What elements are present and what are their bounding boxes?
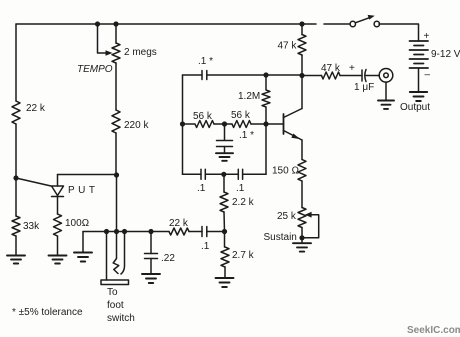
svg-text:Output: Output bbox=[400, 102, 430, 113]
label 56 k second bbox=[231, 110, 251, 121]
junction foot switch middle bbox=[114, 229, 119, 234]
svg-text:22 k: 22 k bbox=[26, 103, 46, 114]
label 1.2M bbox=[238, 91, 260, 102]
switch SPST pole bbox=[350, 21, 355, 26]
label battery minus bbox=[425, 70, 431, 81]
wire PUT gate lead bbox=[16, 178, 51, 186]
svg-text:+: + bbox=[349, 63, 355, 74]
svg-text:* ±5% tolerance: * ±5% tolerance bbox=[12, 307, 83, 318]
svg-text:47 k: 47 k bbox=[321, 63, 341, 74]
wire left column lower bbox=[15, 178, 17, 216]
label P U T bbox=[68, 185, 99, 196]
junction left column / PUT gate bbox=[13, 175, 18, 180]
transistor emitter arrowhead bbox=[291, 134, 300, 140]
capacitor .22 bbox=[145, 232, 158, 274]
junction 220k / PUT anode row bbox=[114, 172, 119, 177]
label Sustain bbox=[264, 232, 297, 243]
wire 2.2k lower lead bbox=[223, 212, 226, 232]
svg-text:2 megs: 2 megs bbox=[124, 47, 157, 58]
resistor 2.7 k bbox=[221, 232, 229, 268]
wire phase bottom left bbox=[183, 173, 202, 175]
foot switch plate bbox=[101, 280, 129, 285]
label SeekIC.com watermark bbox=[407, 325, 460, 336]
label 33k bbox=[23, 221, 40, 232]
resistor 2.2 k bbox=[220, 192, 228, 212]
svg-text:2.7 k: 2.7 k bbox=[232, 250, 255, 261]
resistor 33k bbox=[12, 216, 20, 236]
junction .22 cap bbox=[148, 229, 153, 234]
label .22 bbox=[161, 253, 175, 264]
label .1 bottom right bbox=[236, 183, 245, 194]
label 47 k horizontal bbox=[321, 63, 341, 74]
pot wiper arrowhead bbox=[106, 50, 113, 56]
ground at rail left end bbox=[74, 232, 92, 262]
svg-text:100Ω: 100Ω bbox=[65, 218, 89, 229]
wire emitter down bbox=[301, 140, 303, 160]
ground under 25k bbox=[293, 243, 311, 251]
PUT programmable unijunction transistor bbox=[52, 175, 64, 215]
svg-text:25 k: 25 k bbox=[277, 211, 297, 222]
svg-text:47 k: 47 k bbox=[278, 41, 298, 52]
wire switch to battery bbox=[379, 24, 419, 41]
wire 220k to junction bbox=[115, 133, 117, 175]
capacitor .1 bottom right bbox=[238, 169, 242, 179]
label .1 on rail bbox=[201, 241, 210, 252]
wire output node to 47k bbox=[302, 75, 322, 77]
junction 1.2M top bbox=[263, 72, 268, 77]
junction pot top bbox=[113, 21, 118, 26]
wire phase bottom right bbox=[243, 173, 266, 175]
label 2.2 k bbox=[232, 197, 255, 208]
wire 2.7k to ground bbox=[224, 267, 226, 278]
resistor 56 k second bbox=[232, 121, 251, 128]
svg-text:2.2 k: 2.2 k bbox=[232, 197, 255, 208]
wire top rail left segment bbox=[16, 23, 302, 25]
wire foot switch right lead bbox=[121, 232, 125, 275]
svg-text:33k: 33k bbox=[23, 221, 40, 232]
wire 100 ohm to ground bbox=[57, 236, 59, 255]
capacitor 1 uF polarized bbox=[362, 70, 366, 82]
wire collector up bbox=[301, 76, 303, 109]
label tolerance note bbox=[12, 307, 83, 318]
wire 56k mid bbox=[214, 123, 232, 125]
ground under jack bbox=[378, 101, 394, 109]
wire pot to 220k bbox=[115, 63, 117, 110]
label .1* top bbox=[198, 56, 213, 67]
battery 9-12 V bbox=[410, 41, 429, 68]
capacitor .1 bottom left bbox=[201, 169, 205, 179]
transistor NPN bbox=[284, 109, 303, 141]
svg-text:.1 *: .1 * bbox=[198, 56, 213, 67]
wire 47k top lead bbox=[301, 24, 303, 35]
wire pot top lead bbox=[115, 24, 117, 43]
capacitor .1* top bbox=[202, 71, 207, 80]
wire cap to jack bbox=[366, 75, 379, 77]
svg-text:.1: .1 bbox=[201, 241, 210, 252]
wire cap to junction bbox=[207, 231, 225, 233]
label 22 k horizontal bbox=[169, 218, 189, 229]
label 2 megs bbox=[124, 47, 157, 58]
label 1 uF bbox=[354, 82, 374, 93]
label battery plus bbox=[424, 31, 430, 42]
wire 220k column to rail bbox=[116, 175, 118, 232]
svg-text:switch: switch bbox=[107, 313, 135, 324]
svg-text:PUT: PUT bbox=[68, 185, 99, 196]
junction 2.2k/2.7k bbox=[222, 229, 227, 234]
svg-text:1 μF: 1 μF bbox=[354, 82, 374, 93]
ground under .22 bbox=[142, 274, 160, 283]
wire phase network left vertical bbox=[182, 75, 184, 174]
svg-text:150 Ω: 150 Ω bbox=[272, 166, 299, 177]
switch blade bbox=[355, 17, 370, 23]
label 9-12 V bbox=[431, 49, 460, 60]
wire jack to ground bbox=[385, 82, 387, 100]
junction 56k left bbox=[180, 121, 185, 126]
junction 25k bottom bbox=[299, 235, 304, 240]
wire 2.2k upper lead bbox=[223, 174, 225, 192]
ground under .1* middle bbox=[216, 153, 233, 161]
svg-text:+: + bbox=[424, 31, 430, 42]
wire right vertical to bottom bbox=[265, 124, 267, 174]
label plus polarity bbox=[349, 63, 355, 74]
wire left column upper bbox=[15, 24, 17, 101]
svg-text:To: To bbox=[107, 287, 118, 298]
junction base node bbox=[263, 121, 268, 126]
svg-text:220 k: 220 k bbox=[124, 120, 149, 131]
svg-text:56 k: 56 k bbox=[231, 110, 251, 121]
label TEMPO bbox=[77, 64, 113, 75]
potentiometer 25 k bbox=[298, 208, 306, 228]
wire pot wiper bbox=[98, 24, 108, 53]
capacitor .1 on rail bbox=[202, 227, 207, 237]
label 100 ohm bbox=[65, 218, 89, 229]
ground under 100 ohm bbox=[49, 256, 67, 264]
resistor 22 k bbox=[12, 101, 20, 124]
svg-text:.1: .1 bbox=[236, 183, 245, 194]
wire 47k to cap bbox=[340, 75, 362, 77]
label 56 k first bbox=[193, 111, 213, 122]
wire foot switch left lead bbox=[106, 232, 108, 281]
svg-text:22 k: 22 k bbox=[169, 218, 189, 229]
wire left column middle bbox=[15, 124, 17, 178]
wire 47k bottom lead bbox=[301, 55, 303, 76]
wire bottom rail bbox=[83, 231, 169, 233]
resistor 22 k horizontal bbox=[169, 228, 189, 235]
svg-text:SeekIC.com: SeekIC.com bbox=[407, 325, 460, 336]
junction phase bottom bbox=[221, 172, 226, 177]
label 2.7 k bbox=[232, 250, 255, 261]
resistor 150 ohm bbox=[298, 160, 306, 182]
switch blade arrowhead bbox=[368, 15, 375, 20]
resistor 56 k first bbox=[183, 121, 215, 128]
label 22 k bbox=[26, 103, 46, 114]
resistor 47 k vertical bbox=[298, 35, 306, 56]
label .1* middle bbox=[239, 130, 254, 141]
svg-text:Sustain: Sustain bbox=[264, 232, 297, 243]
pot 25k wiper arrowhead bbox=[305, 212, 312, 218]
ground under 33k bbox=[7, 256, 25, 264]
label Output bbox=[400, 102, 430, 113]
output jack bbox=[379, 69, 393, 83]
resistor 1.2M bbox=[262, 75, 270, 124]
wire 25k wiper loop bbox=[302, 215, 319, 238]
svg-text:–: – bbox=[425, 70, 431, 81]
wire top rail to switch (dashed gap) bbox=[302, 23, 350, 25]
resistor 100 ohm bbox=[54, 214, 62, 236]
wire phase bottom mid bbox=[205, 173, 238, 175]
svg-text:.22: .22 bbox=[161, 253, 175, 264]
svg-text:.1: .1 bbox=[197, 183, 206, 194]
potentiometer 2 megs bbox=[112, 43, 120, 63]
wire 25k bottom bbox=[301, 228, 303, 243]
capacitor .1* middle bbox=[217, 124, 233, 153]
resistor 47 k horizontal bbox=[322, 72, 341, 79]
wire PUT anode row bbox=[58, 174, 117, 176]
svg-text:56 k: 56 k bbox=[193, 111, 213, 122]
switch SPST throw bbox=[374, 21, 379, 26]
svg-text:1.2M: 1.2M bbox=[238, 91, 260, 102]
wire 22k to cap bbox=[189, 231, 202, 233]
svg-text:foot: foot bbox=[107, 300, 124, 311]
label 220 k bbox=[124, 120, 149, 131]
wire foot switch middle lead bbox=[113, 232, 119, 274]
junction foot switch left bbox=[104, 229, 109, 234]
junction pot wiper tap bbox=[95, 21, 100, 26]
label To foot switch bbox=[107, 287, 135, 324]
junction output node bbox=[299, 73, 304, 78]
wire feedback top left bbox=[183, 74, 203, 76]
svg-text:.1 *: .1 * bbox=[239, 130, 254, 141]
wire 56k to base node bbox=[251, 123, 284, 125]
wire battery to ground bbox=[418, 68, 420, 92]
ground under 2.7k bbox=[216, 278, 234, 287]
wire 33k to ground bbox=[15, 236, 17, 255]
resistor 220 k bbox=[112, 110, 120, 133]
svg-text:TEMPO: TEMPO bbox=[77, 64, 113, 75]
label 47 k vertical bbox=[278, 41, 298, 52]
junction 47k top bbox=[299, 21, 304, 26]
wire 150 to 25k bbox=[301, 181, 303, 208]
svg-text:9-12 V: 9-12 V bbox=[431, 49, 460, 60]
label 25 k bbox=[277, 211, 297, 222]
wire feedback top right bbox=[207, 74, 302, 76]
label .1 bottom left bbox=[197, 183, 206, 194]
junction mid cap bbox=[222, 121, 227, 126]
junction foot switch right bbox=[122, 229, 127, 234]
label 150 ohm bbox=[272, 166, 299, 177]
ground under battery bbox=[410, 92, 427, 101]
